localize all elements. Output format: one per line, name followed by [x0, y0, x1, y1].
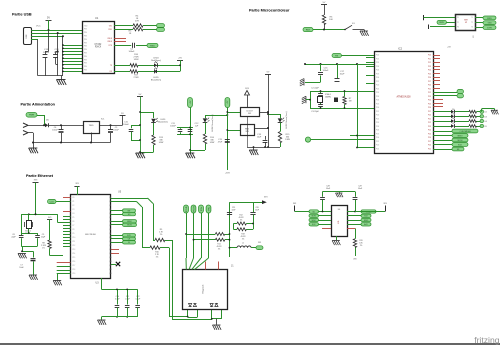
svg-text:TPIN-: TPIN-: [208, 206, 210, 211]
svg-text:T3: T3: [471, 27, 473, 29]
svg-text:PC7: PC7: [428, 111, 431, 113]
svg-text:MISO: MISO: [458, 135, 463, 137]
svg-text:P7: P7: [73, 225, 75, 227]
svg-text:100uF: 100uF: [52, 130, 58, 132]
svg-text:PWR: PWR: [29, 115, 35, 117]
svg-text:P10: P10: [73, 237, 76, 239]
svg-text:PD6: PD6: [376, 107, 379, 109]
svg-text:100nF: 100nF: [323, 70, 330, 72]
svg-text:Q16: Q16: [109, 261, 112, 263]
svg-text:RXD: RXD: [439, 22, 444, 24]
svg-text:PD0: PD0: [376, 115, 379, 117]
svg-text:1/6W: 1/6W: [210, 142, 215, 144]
svg-text:47uF: 47uF: [218, 142, 223, 144]
svg-text:P17: P17: [73, 265, 76, 267]
svg-text:16MHz: 16MHz: [325, 97, 331, 99]
svg-text:PD1: PD1: [376, 148, 379, 150]
svg-text:Partie Ethernet: Partie Ethernet: [26, 174, 54, 178]
svg-text:MOSI: MOSI: [312, 216, 317, 218]
svg-text:7805: 7805: [89, 125, 95, 127]
svg-text:T1: T1: [471, 17, 473, 19]
svg-text:PD7: PD7: [376, 111, 379, 113]
svg-text:1%: 1%: [160, 234, 163, 236]
svg-text:3V3: 3V3: [383, 203, 386, 205]
svg-text:P4: P4: [73, 213, 75, 215]
svg-text:PC1: PC1: [428, 148, 431, 150]
svg-text:P2: P2: [73, 205, 75, 207]
svg-text:P15: P15: [73, 257, 76, 259]
svg-text:Q12: Q12: [109, 245, 112, 247]
svg-text:RXD: RXD: [150, 45, 155, 47]
svg-text:TPOUT+: TPOUT+: [186, 206, 188, 213]
svg-text:1%: 1%: [156, 257, 159, 259]
svg-text:PD2: PD2: [376, 92, 379, 94]
svg-text:PD5: PD5: [376, 103, 379, 105]
svg-text:PD7: PD7: [376, 141, 379, 143]
svg-text:P1: P1: [73, 201, 75, 203]
svg-text:PD3: PD3: [376, 66, 379, 68]
svg-text:U1: U1: [95, 16, 99, 20]
svg-text:PC2: PC2: [428, 122, 431, 124]
svg-text:PD1: PD1: [376, 118, 379, 120]
svg-text:TPOUT-: TPOUT-: [193, 205, 195, 212]
svg-text:P2: P2: [457, 22, 459, 24]
svg-text:RXD: RXD: [487, 18, 492, 20]
svg-text:P19: P19: [73, 273, 76, 275]
svg-text:3V3: 3V3: [258, 242, 261, 244]
svg-text:CLK/CMD&B: CLK/CMD&B: [459, 131, 471, 133]
svg-text:PC6: PC6: [428, 137, 431, 139]
svg-text:D2: D2: [485, 112, 487, 114]
svg-text:PC0: PC0: [428, 145, 431, 147]
svg-text:MagJack: MagJack: [203, 284, 205, 294]
svg-text:PC4: PC4: [428, 130, 431, 132]
svg-text:PC7: PC7: [428, 81, 431, 83]
svg-text:PD0: PD0: [376, 55, 379, 57]
svg-text:PD5: PD5: [376, 133, 379, 135]
svg-text:T2: T2: [471, 22, 473, 24]
svg-text:+5V: +5V: [178, 57, 182, 59]
svg-text:TPIN+: TPIN+: [201, 207, 203, 212]
svg-text:1%: 1%: [218, 249, 221, 251]
svg-text:PC4: PC4: [428, 100, 431, 102]
svg-text:PD5: PD5: [376, 73, 379, 75]
svg-text:D5: D5: [485, 126, 487, 128]
svg-text:PC2: PC2: [428, 62, 431, 64]
svg-text:5V: 5V: [47, 16, 50, 19]
svg-text:Partie Microcontroleur: Partie Microcontroleur: [249, 9, 290, 13]
svg-text:P16: P16: [73, 261, 76, 263]
svg-text:ATMEGA328: ATMEGA328: [397, 96, 412, 99]
svg-text:Q9: Q9: [109, 233, 111, 235]
svg-text:MISO: MISO: [364, 220, 369, 222]
svg-text:47R: 47R: [135, 21, 139, 23]
svg-text:Q5: Q5: [109, 217, 111, 219]
svg-text:100nF: 100nF: [43, 52, 50, 54]
svg-text:10nF: 10nF: [54, 52, 60, 54]
svg-text:Q17: Q17: [109, 265, 112, 267]
svg-text:100uF: 100uF: [113, 130, 119, 132]
svg-text:PC0: PC0: [428, 55, 431, 57]
svg-text:P3: P3: [457, 27, 459, 29]
svg-text:Q19: Q19: [109, 273, 112, 275]
svg-text:PC3: PC3: [428, 96, 431, 98]
svg-text:MISO: MISO: [312, 220, 317, 222]
svg-text:Q18: Q18: [109, 269, 112, 271]
svg-text:PD2: PD2: [376, 122, 379, 124]
svg-text:3V3: 3V3: [264, 197, 267, 199]
svg-text:PD0: PD0: [376, 85, 379, 87]
svg-text:10K: 10K: [329, 19, 333, 21]
svg-text:PD3: PD3: [376, 126, 379, 128]
svg-text:+5V: +5V: [447, 47, 451, 49]
svg-text:Blue(5mm): Blue(5mm): [158, 122, 168, 124]
svg-text:D5: D5: [452, 123, 454, 125]
svg-text:PD1: PD1: [376, 58, 379, 60]
svg-text:TXD: TXD: [487, 23, 492, 25]
svg-text:100nF: 100nF: [129, 51, 136, 53]
svg-text:1%: 1%: [42, 248, 45, 250]
svg-text:L1: L1: [242, 243, 244, 245]
svg-text:PD6: PD6: [376, 137, 379, 139]
svg-text:PC0: PC0: [428, 115, 431, 117]
svg-text:3V3: 3V3: [75, 183, 78, 185]
svg-text:PC1: PC1: [428, 58, 431, 60]
svg-text:CLK: CLK: [50, 201, 55, 203]
svg-text:XTAL1: XTAL1: [325, 93, 332, 96]
svg-text:1%: 1%: [360, 245, 363, 247]
svg-text:D3: D3: [485, 116, 487, 118]
svg-text:PD1: PD1: [376, 88, 379, 90]
svg-text:3V3: 3V3: [245, 131, 248, 133]
svg-text:PC0: PC0: [428, 85, 431, 87]
svg-text:PD7: PD7: [376, 81, 379, 83]
svg-text:D2: D2: [452, 109, 454, 111]
svg-text:Partie Alimentation: Partie Alimentation: [21, 103, 56, 107]
svg-text:D3: D3: [452, 114, 454, 116]
svg-text:3V3: 3V3: [248, 113, 251, 115]
svg-text:PD3: PD3: [376, 96, 379, 98]
svg-text:PD4: PD4: [376, 70, 379, 72]
svg-text:PC6: PC6: [428, 77, 431, 79]
svg-text:P0: P0: [73, 197, 75, 199]
svg-text:3V3: 3V3: [293, 203, 296, 205]
svg-text:fritzing: fritzing: [474, 335, 500, 345]
svg-text:PC1: PC1: [428, 118, 431, 120]
svg-text:RXXX: RXXX: [95, 47, 102, 49]
svg-text:Q8: Q8: [109, 229, 111, 231]
svg-text:P1: P1: [457, 17, 459, 19]
svg-text:P6: P6: [73, 221, 75, 223]
svg-text:MOSI: MOSI: [127, 225, 132, 227]
svg-text:PC6: PC6: [428, 107, 431, 109]
svg-text:PD0: PD0: [376, 145, 379, 147]
svg-text:Partie USB: Partie USB: [12, 13, 32, 17]
svg-text:270R: 270R: [134, 77, 139, 79]
svg-text:PD6: PD6: [376, 77, 379, 79]
svg-text:PC5: PC5: [428, 133, 431, 135]
svg-text:LED2 Green(3mm): LED2 Green(3mm): [212, 114, 214, 131]
svg-text:PC4: PC4: [428, 70, 431, 72]
svg-text:PD4: PD4: [376, 130, 379, 132]
svg-text:100nF: 100nF: [170, 126, 176, 128]
svg-text:P18: P18: [73, 269, 76, 271]
svg-text:Q7: Q7: [109, 225, 111, 227]
svg-text:P11: P11: [73, 241, 76, 243]
svg-text:P9: P9: [73, 233, 75, 235]
svg-text:MOSI: MOSI: [458, 140, 463, 142]
svg-text:10uF: 10uF: [340, 74, 345, 76]
svg-text:C2 22pF: C2 22pF: [311, 88, 319, 90]
svg-text:P12: P12: [73, 245, 76, 247]
svg-text:D4: D4: [452, 118, 454, 120]
svg-text:Q2: Q2: [109, 205, 111, 207]
svg-text:P3: P3: [73, 209, 75, 211]
svg-text:VCC: VCC: [36, 25, 41, 27]
svg-text:PC5: PC5: [428, 103, 431, 105]
svg-text:1%: 1%: [240, 220, 243, 222]
svg-text:RST: RST: [306, 30, 311, 32]
svg-text:PC3: PC3: [428, 66, 431, 68]
svg-text:P14: P14: [73, 253, 76, 255]
svg-text:P8: P8: [73, 229, 75, 231]
svg-text:1M: 1M: [349, 101, 352, 103]
svg-text:DTR: DTR: [487, 27, 492, 29]
svg-text:Red(3mm): Red(3mm): [151, 60, 161, 62]
svg-text:LED3 Green(3mm): LED3 Green(3mm): [286, 111, 288, 128]
svg-text:PC5: PC5: [428, 73, 431, 75]
svg-text:ENC28J60: ENC28J60: [85, 234, 96, 236]
svg-text:PD2: PD2: [376, 62, 379, 64]
svg-text:1/6W: 1/6W: [159, 142, 164, 144]
svg-text:IC2: IC2: [398, 47, 403, 51]
svg-text:PC7: PC7: [428, 141, 431, 143]
svg-text:Blue(3mm): Blue(3mm): [151, 79, 161, 81]
svg-text:Q15: Q15: [109, 257, 112, 259]
svg-text:10uF: 10uF: [257, 137, 262, 139]
svg-text:1/6W: 1/6W: [134, 59, 139, 61]
svg-text:3V3: 3V3: [48, 217, 51, 219]
svg-text:100nF: 100nF: [123, 124, 129, 126]
svg-text:1%: 1%: [242, 239, 245, 241]
svg-text:PC3: PC3: [428, 126, 431, 128]
svg-text:P13: P13: [73, 249, 76, 251]
svg-text:PC1: PC1: [428, 88, 431, 90]
svg-text:U6: U6: [338, 209, 340, 211]
svg-text:C3 22pF: C3 22pF: [311, 111, 319, 113]
svg-text:P5: P5: [73, 217, 75, 219]
svg-text:D4: D4: [485, 121, 487, 123]
svg-text:RX: RX: [335, 55, 339, 57]
svg-text:PD4: PD4: [376, 100, 379, 102]
svg-text:1/6W: 1/6W: [285, 139, 290, 141]
svg-text:PC2: PC2: [428, 92, 431, 94]
